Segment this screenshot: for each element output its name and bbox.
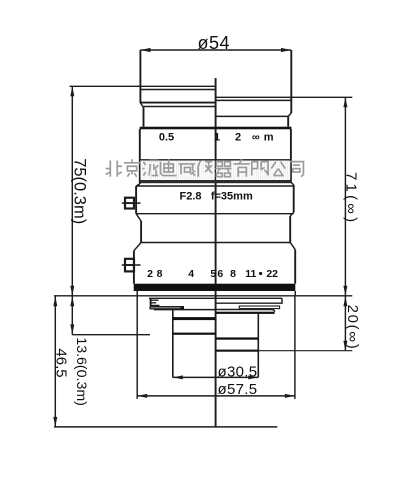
black base band (134, 284, 296, 291)
focus ring top thick edge (140, 127, 292, 130)
lens front right edge + Ø54 extension (290, 50, 292, 113)
flange face line with left and right extension lines (54, 295, 352, 297)
knurl dark bottom strip (140, 180, 291, 183)
focus ring left edge (139, 129, 141, 184)
Ø30.5 right arrow (248, 375, 258, 379)
front rim second line left half (140, 89, 215, 91)
flange ring (137, 291, 295, 296)
dimension 71 and 20 line (344, 97, 346, 350)
svg-text:0.5: 0.5 (159, 132, 174, 144)
dimension Ø57.5 line (137, 395, 295, 397)
rear barrel right extension line to 20 dim (258, 350, 352, 352)
aperture index ring top line (136, 185, 294, 187)
aperture ring right edge (294, 250, 296, 284)
Ø57.5 right arrow (285, 394, 295, 398)
svg-text:∞: ∞ (252, 132, 260, 144)
rear plate top line (149, 297, 282, 299)
aperture ring chamfer right (290, 242, 295, 249)
front inset line right half (216, 115, 289, 117)
svg-text:ø57.5: ø57.5 (218, 381, 258, 398)
Ø54 right arrow (281, 48, 291, 52)
focus ring scale band bottom line (140, 159, 291, 161)
Ø30.5 left arrow (173, 375, 183, 379)
center line (215, 78, 217, 427)
svg-text:22: 22 (266, 268, 278, 280)
rear barrel left edge + Ø30.5 extension (172, 310, 174, 378)
svg-text:46,5: 46,5 (53, 348, 70, 377)
svg-text:4: 4 (188, 268, 194, 280)
aperture index ring left edge (135, 186, 137, 214)
aperture index ring step right (291, 182, 294, 185)
front inset edge right (287, 116, 289, 126)
front rim bottom line left half (140, 102, 215, 104)
13.6 bottom arrow (70, 324, 74, 334)
rear barrel left ring line A (173, 317, 216, 320)
rear plate left bar end cap (181, 306, 184, 309)
aperture index ring right edge (293, 185, 295, 213)
aperture ring left edge (133, 251, 135, 284)
svg-text:ø54: ø54 (198, 33, 231, 53)
svg-text:6: 6 (217, 268, 223, 280)
dimension Ø30.5 line (173, 376, 258, 378)
svg-text:ø30.5: ø30.5 (218, 363, 258, 380)
20 top arrow (343, 296, 347, 306)
bottom extension line (54, 426, 277, 428)
svg-text:13.6(0.3m): 13.6(0.3m) (73, 337, 89, 406)
svg-text:f=35mm: f=35mm (211, 190, 253, 202)
knurl texture band (141, 161, 290, 180)
Ø54 left arrow (141, 48, 151, 52)
46.5 top arrow (53, 296, 57, 306)
rear barrel right ring line (216, 337, 259, 339)
mid ring bottom line (141, 242, 290, 244)
bayonet lug bracket left (150, 299, 160, 305)
focus ring right edge (290, 129, 292, 182)
mid ring chamfer left (136, 214, 141, 221)
rear rounded plate right top (216, 310, 275, 312)
rear barrel right edge + Ø30.5 extension (257, 314, 259, 378)
front inset top line left half (144, 106, 216, 108)
46.5 bottom arrow (53, 417, 57, 427)
front inset edge left (143, 108, 145, 127)
71 bottom arrow (343, 286, 347, 296)
75 top arrow (70, 86, 74, 96)
mid ring left edge (140, 221, 142, 243)
75 bottom arrow (70, 286, 74, 296)
aperture index ring bottom line (136, 213, 294, 215)
svg-text:2: 2 (147, 268, 153, 280)
aperture scale dot (259, 272, 262, 275)
dimension 75(0.3m) line (71, 86, 73, 334)
front chamfer left (140, 103, 143, 108)
focus lock screw tab 1 (122, 198, 141, 209)
13.6 top arrow (70, 296, 74, 306)
svg-text:20(∞): 20(∞) (344, 305, 361, 351)
svg-text:5: 5 (210, 268, 216, 280)
svg-text:1: 1 (214, 132, 220, 144)
aperture index ring step left (136, 184, 140, 186)
mid ring chamfer right (290, 212, 294, 216)
flange left edge extension to Ø57.5 (136, 296, 138, 399)
front rim second line right half (216, 99, 292, 101)
dimension Ø54 line (141, 49, 292, 51)
svg-text:11: 11 (245, 268, 256, 280)
svg-text:m: m (264, 132, 274, 144)
front rim top line left half (70, 85, 216, 87)
rear plate right step (216, 298, 282, 303)
dimension 46.5 line (54, 296, 56, 427)
aperture lock screw tab 2 (122, 259, 141, 272)
rear thin bar right (239, 306, 279, 309)
svg-text:F2.8: F2.8 (179, 190, 201, 202)
lens front left edge + Ø54 extension (139, 50, 141, 103)
svg-text:71(∞): 71(∞) (343, 172, 360, 225)
rear barrel right bottom edge (216, 350, 259, 352)
13.6 bottom extension line (72, 334, 150, 336)
watermark pseudo CJK glyphs (106, 159, 304, 176)
71 top arrow (343, 97, 347, 107)
svg-text:75(0.3m): 75(0.3m) (71, 158, 89, 224)
svg-text:8: 8 (157, 268, 163, 280)
front chamfer right (288, 113, 291, 117)
Ø57.5 left arrow (137, 394, 147, 398)
rear plate left line to center (154, 309, 216, 311)
svg-text:2: 2 (235, 132, 241, 144)
front rim top line right half (216, 96, 353, 98)
aperture ring chamfer left (134, 243, 141, 251)
mid ring right edge (289, 216, 291, 242)
svg-text:8: 8 (230, 268, 236, 280)
rear rounded plate right dark edge (216, 312, 275, 314)
rear plate left bar (150, 307, 183, 309)
20 bottom arrow (343, 341, 347, 351)
rear barrel left bottom edge (173, 333, 216, 335)
flange right edge extension to Ø57.5 (294, 296, 296, 399)
